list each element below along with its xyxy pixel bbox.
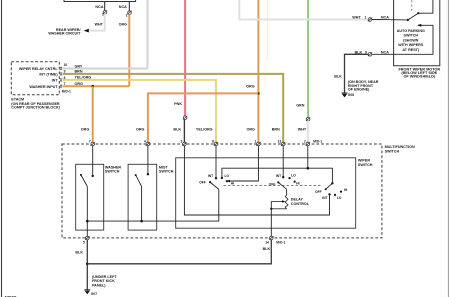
wire YEL/ORG row from ETACM pin 8 to multifunction pin 8 bbox=[63, 80, 217, 142]
svg-text:NCA: NCA bbox=[119, 5, 127, 9]
wire from pin 7 to washer switch contact bbox=[92, 146, 94, 176]
wire lower contact to motor pin 9 bbox=[372, 25, 433, 54]
connector pin 3 bbox=[182, 142, 186, 146]
junction dot on ORG washer input row bbox=[91, 85, 94, 88]
svg-text:WHT: WHT bbox=[94, 23, 103, 27]
svg-text:WHT: WHT bbox=[352, 15, 361, 19]
junction dot washer arm / ground rail bbox=[86, 220, 89, 223]
lower contact arrow bbox=[417, 24, 421, 27]
mist switch contact dot bbox=[147, 173, 149, 175]
svg-text:DELAY: DELAY bbox=[291, 198, 304, 202]
wiper switch box bbox=[176, 158, 356, 228]
svg-text:ETACM: ETACM bbox=[11, 97, 24, 101]
auto parking switch pivot bbox=[407, 19, 409, 21]
svg-text:WIPER RELAY CNTRL: WIPER RELAY CNTRL bbox=[19, 67, 58, 71]
svg-text:MULTIFUNCTION: MULTIFUNCTION bbox=[385, 145, 415, 149]
wire GRN vertical from top of page bbox=[307, 0, 309, 117]
right LO contact dot bbox=[334, 194, 336, 196]
svg-text:WHT: WHT bbox=[298, 127, 307, 131]
svg-text:ORG: ORG bbox=[81, 127, 90, 131]
wire BRN row from ETACM pin 9 to multifunction pin 13 bbox=[63, 74, 284, 142]
connector motor pin 1 bbox=[368, 18, 372, 22]
svg-text:OF ENGINE): OF ENGINE) bbox=[348, 88, 370, 92]
mechanical dashed link from motor bbox=[411, 0, 413, 11]
inline connector on GRN/WHT wire bbox=[306, 117, 310, 121]
svg-text:SWITCH: SWITCH bbox=[358, 163, 373, 167]
washer switch contact dot bbox=[92, 175, 94, 177]
svg-text:LO: LO bbox=[337, 196, 342, 200]
svg-text:OFF: OFF bbox=[269, 183, 276, 187]
ground symbol G08 bbox=[342, 93, 348, 97]
svg-text:INT: INT bbox=[322, 196, 327, 200]
svg-text:(SHOWN: (SHOWN bbox=[403, 38, 419, 42]
wire from pin 4 to mist switch contact bbox=[147, 146, 149, 174]
faint YEL pass-through wire bbox=[267, 0, 269, 60]
ground symbol G07 bbox=[84, 290, 90, 294]
wire pin 1 to left HI contact bbox=[227, 146, 258, 181]
washer switch arm wire down to pin 5 bbox=[86, 186, 88, 242]
svg-text:14: 14 bbox=[265, 240, 269, 244]
svg-text:INT (TIME): INT (TIME) bbox=[39, 72, 58, 76]
svg-text:G08: G08 bbox=[348, 93, 354, 97]
svg-text:ORG: ORG bbox=[119, 23, 128, 27]
left switch arm bbox=[209, 181, 211, 183]
junction dot mist arm / rail bbox=[140, 220, 143, 223]
pin 3 stub of washer motor bbox=[104, 2, 106, 11]
right switch arm bbox=[326, 183, 333, 189]
connector motor pin 9 bbox=[368, 53, 372, 57]
wire middle arm to delay control bbox=[286, 189, 288, 195]
svg-text:SWITCH: SWITCH bbox=[385, 150, 400, 154]
svg-text:ORG: ORG bbox=[246, 85, 255, 89]
svg-text:BRN: BRN bbox=[75, 70, 83, 74]
connector at washer motor pin 1 bbox=[127, 11, 131, 15]
svg-text:WASHER: WASHER bbox=[105, 165, 122, 169]
wire BLK motor pin 9 to ground G08 bbox=[345, 54, 369, 92]
wire motor pin 1 to auto park switch pivot bbox=[372, 19, 408, 21]
svg-text:OFF: OFF bbox=[315, 190, 322, 194]
right switch common dot bbox=[331, 182, 333, 184]
svg-text:BRN: BRN bbox=[272, 127, 280, 131]
connector pin 7 bbox=[91, 142, 95, 146]
svg-text:LO: LO bbox=[291, 173, 296, 177]
wire WHT from washer motor to rear circuit arrow bbox=[88, 14, 105, 31]
svg-text:1: 1 bbox=[126, 13, 128, 17]
svg-text:5: 5 bbox=[83, 240, 85, 244]
svg-text:OF WINDSHIELD): OF WINDSHIELD) bbox=[403, 75, 435, 79]
inline connector on PNK/BLK wire bbox=[183, 116, 187, 120]
left INT contact dot bbox=[215, 177, 217, 179]
svg-text:M/D-1: M/D-1 bbox=[276, 240, 285, 244]
mist switch arm bbox=[135, 174, 137, 176]
wire BLK pin 5 down to ground bbox=[86, 240, 88, 290]
svg-text:HI: HI bbox=[344, 188, 347, 192]
svg-text:AUTO PARKING: AUTO PARKING bbox=[397, 29, 425, 33]
svg-text:SWITCH: SWITCH bbox=[404, 34, 419, 38]
svg-text:INT: INT bbox=[276, 174, 281, 178]
wire pin 3 to right INT contact bbox=[184, 146, 329, 215]
LO/common bus wire bbox=[222, 168, 333, 183]
svg-text:G07: G07 bbox=[91, 292, 97, 296]
svg-text:NCA: NCA bbox=[95, 5, 103, 9]
svg-text:YEL/ORG: YEL/ORG bbox=[196, 127, 213, 131]
svg-text:HI: HI bbox=[296, 181, 299, 185]
ETACM pin bracket 7 bbox=[60, 85, 62, 88]
svg-text:ORG: ORG bbox=[136, 127, 145, 131]
svg-text:LO: LO bbox=[225, 174, 230, 178]
washer switch arm bbox=[80, 174, 82, 176]
svg-text:WITH WIPERS: WITH WIPERS bbox=[398, 43, 424, 47]
junction dot BLK bbox=[86, 263, 89, 266]
connector pin 8 bbox=[214, 142, 218, 146]
wire ORG from pin 4 corner to junction on ORG vertical bbox=[148, 93, 259, 142]
right INT contact dot bbox=[328, 193, 330, 195]
svg-text:BLK: BLK bbox=[75, 251, 83, 255]
multifunction switch dashed box bbox=[62, 144, 382, 238]
ETACM pin bracket 10 bbox=[60, 67, 62, 70]
junction dot pin 2 on bus bbox=[307, 167, 310, 170]
junction dot delay control bbox=[270, 208, 272, 210]
pin 1 stub of washer motor bbox=[128, 2, 130, 11]
svg-text:10: 10 bbox=[64, 63, 68, 67]
mist switch arm wire down to rail bbox=[141, 186, 143, 221]
wire WHT from inline connector to multifunction pin 2 bbox=[307, 121, 309, 142]
svg-text:ORG: ORG bbox=[75, 82, 84, 86]
mechanical linkage dashed line bbox=[224, 185, 323, 187]
ground rail wire bbox=[87, 189, 219, 221]
svg-text:M/D-1: M/D-1 bbox=[313, 140, 322, 144]
svg-text:HI: HI bbox=[231, 182, 234, 186]
svg-text:M/D-1: M/D-1 bbox=[62, 89, 71, 93]
wire ORG row from ETACM pin 7 (washer input) bbox=[63, 85, 130, 87]
middle LO contact dot bbox=[288, 177, 290, 179]
wire GRY vertical from top of page bbox=[147, 0, 149, 69]
svg-text:COMPT JUNCTION BLOCK): COMPT JUNCTION BLOCK) bbox=[11, 106, 60, 110]
svg-text:4: 4 bbox=[144, 140, 146, 144]
svg-text:BLK: BLK bbox=[263, 247, 271, 251]
middle INT contact dot bbox=[282, 176, 284, 178]
wire WHT from top of page to front wiper motor pin 1 bbox=[239, 0, 368, 20]
svg-text:1: 1 bbox=[255, 140, 257, 144]
svg-text:INT: INT bbox=[208, 174, 213, 178]
ETACM pin bracket 9 bbox=[60, 72, 62, 75]
page left border line bbox=[1, 0, 3, 297]
auto parking switch arm bbox=[408, 13, 418, 20]
svg-text:3: 3 bbox=[181, 140, 183, 144]
right HI contact dot bbox=[340, 191, 342, 193]
svg-text:WIPER: WIPER bbox=[358, 159, 370, 163]
middle HI contact dot bbox=[294, 181, 296, 183]
connector pin 13 bbox=[281, 142, 285, 146]
svg-text:SWITCH: SWITCH bbox=[105, 170, 120, 174]
ETACM dashed box bbox=[11, 62, 59, 95]
delay control variable resistor bbox=[285, 195, 288, 209]
wire delay control to pin 14 bbox=[270, 202, 272, 243]
front wiper motor box (cut off at top) bbox=[394, 0, 440, 66]
svg-text:PANEL): PANEL) bbox=[92, 284, 106, 288]
svg-text:WASHER INPUT: WASHER INPUT bbox=[29, 85, 58, 89]
svg-text:MIST: MIST bbox=[159, 165, 169, 169]
svg-text:NCA: NCA bbox=[381, 50, 389, 54]
wire pin 8 to left INT contact bbox=[215, 146, 217, 178]
wire ORG branch down to multifunction pin 7 bbox=[92, 86, 94, 142]
svg-text:3: 3 bbox=[102, 13, 104, 17]
svg-text:CONTROL: CONTROL bbox=[291, 202, 310, 206]
svg-text:2: 2 bbox=[304, 140, 306, 144]
wire upper contact to top of page bbox=[418, 0, 433, 13]
svg-text:SWITCH: SWITCH bbox=[159, 170, 174, 174]
mist switch box bbox=[128, 164, 157, 230]
wire BLK from inline connector to multifunction pin 3 bbox=[183, 119, 185, 142]
svg-text:AT REST): AT REST) bbox=[402, 48, 419, 52]
svg-text:GRY: GRY bbox=[75, 64, 83, 68]
connector pin 1 bbox=[256, 142, 260, 146]
wire pin 13 to middle INT contact bbox=[282, 146, 284, 177]
wire PNK vertical from top of page bbox=[184, 0, 186, 116]
page right border line bbox=[447, 0, 449, 297]
middle switch arm bbox=[277, 181, 279, 183]
wire ORG from washer motor pin 1 down to washer input row bbox=[128, 14, 130, 86]
connector at washer motor pin 3 bbox=[103, 10, 107, 14]
connector pin 4 bbox=[146, 142, 150, 146]
wire pin 2 to bus bbox=[307, 146, 309, 168]
svg-text:1: 1 bbox=[365, 15, 367, 19]
junction dot on ORG wire bbox=[257, 92, 260, 95]
left HI contact dot and arrow bbox=[226, 180, 228, 182]
svg-text:OFF: OFF bbox=[199, 181, 206, 185]
bottom pin 5 connector bbox=[85, 236, 89, 240]
bottom pin 14 connector bbox=[269, 236, 273, 240]
svg-text:GRN: GRN bbox=[296, 103, 305, 107]
washer switch box bbox=[76, 164, 104, 230]
connector pin 2 bbox=[306, 142, 310, 146]
svg-text:INT: INT bbox=[52, 79, 59, 83]
delay control bottom wire bbox=[271, 208, 286, 210]
off-page arrow to rear wiper/washer circuit bbox=[84, 29, 89, 33]
washer motor box (cut off at top) bbox=[64, 0, 136, 2]
svg-text:ORG: ORG bbox=[246, 127, 255, 131]
left LO contact dot bbox=[221, 177, 223, 179]
svg-text:WASHER CIRCUIT: WASHER CIRCUIT bbox=[48, 32, 81, 36]
delay control wiper arrow stub bbox=[271, 201, 283, 203]
svg-text:7: 7 bbox=[89, 140, 91, 144]
svg-text:BLK: BLK bbox=[173, 127, 181, 131]
wire GRY row from ETACM pin 10 bbox=[63, 68, 148, 70]
svg-text:NCA: NCA bbox=[381, 15, 389, 19]
wire ORG long vertical from top of page to multifunction pin 1 bbox=[257, 0, 259, 142]
svg-text:YEL/ORG: YEL/ORG bbox=[75, 76, 92, 80]
svg-text:PNK: PNK bbox=[174, 102, 182, 106]
ETACM pin bracket 8 bbox=[60, 78, 62, 81]
svg-text:BLK: BLK bbox=[334, 75, 342, 79]
svg-text:8: 8 bbox=[212, 140, 214, 144]
svg-text:13: 13 bbox=[278, 140, 282, 144]
wire BLK pin 14 to junction bbox=[87, 240, 271, 264]
